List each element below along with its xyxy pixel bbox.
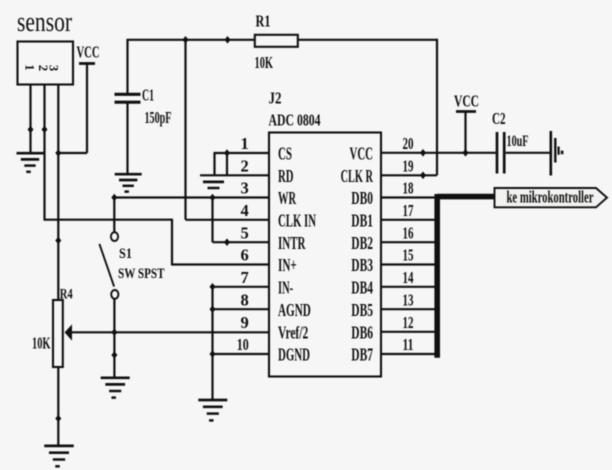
- svg-text:19: 19: [403, 157, 414, 176]
- capacitor C2: [492, 109, 529, 174]
- junction pin 8: [210, 305, 216, 313]
- svg-text:IN-: IN-: [278, 277, 293, 297]
- wire sensor pin2 down: [43, 85, 45, 220]
- wire IC pin 11 DB7 stub: [381, 353, 440, 355]
- svg-text:6: 6: [241, 246, 249, 265]
- svg-text:sensor: sensor: [17, 7, 73, 38]
- wire link pin1-pin2 left: [213, 153, 215, 175]
- junction pin 10: [210, 350, 216, 358]
- junction waypoint on pin 19 wire: [420, 172, 426, 180]
- svg-text:RD: RD: [278, 166, 294, 186]
- junction waypoint on top net: [225, 36, 231, 44]
- ground under R4: [44, 446, 74, 466]
- svg-text:IN+: IN+: [278, 255, 297, 275]
- svg-text:1: 1: [241, 134, 249, 153]
- wire to IC pin 5 INTR: [213, 241, 270, 243]
- junction on top net at CLK IN branch: [183, 36, 189, 44]
- junction VCC stem: [463, 149, 469, 157]
- svg-text:Vref/2: Vref/2: [278, 322, 308, 342]
- wire IC pin 17 DB1 stub: [381, 219, 440, 221]
- svg-text:9: 9: [241, 313, 249, 332]
- wire IC pin 18 DB0: [381, 196, 437, 198]
- power VCC (right): [454, 92, 479, 153]
- svg-text:17: 17: [403, 201, 414, 220]
- svg-text:4: 4: [241, 201, 249, 220]
- wire S1 bottom to ground: [113, 299, 115, 378]
- svg-text:WR: WR: [278, 188, 296, 208]
- svg-text:3: 3: [241, 179, 249, 198]
- wire to IC pin 10 DGND: [213, 353, 270, 355]
- junction on sensor pin1 wire: [28, 126, 34, 134]
- svg-text:CLK R: CLK R: [341, 166, 374, 186]
- junction on sensor pin2 wire: [42, 126, 48, 134]
- svg-text:14: 14: [403, 268, 414, 287]
- wire R1 right to corner: [298, 39, 437, 41]
- wire IC pin 1 CS stub: [214, 152, 270, 154]
- junction waypoint above ground: [111, 351, 117, 359]
- wire IC pin 14 DB4 stub: [381, 286, 440, 288]
- svg-text:10uF: 10uF: [507, 133, 529, 150]
- power VCC (left): [77, 43, 100, 64]
- svg-text:INTR: INTR: [278, 233, 306, 253]
- wiper arrow of R4: [65, 324, 72, 340]
- svg-text:VCC: VCC: [350, 144, 374, 164]
- wire IC pin 20 VCC: [381, 152, 496, 154]
- svg-text:10: 10: [237, 335, 249, 354]
- junction waypoint on R4 ground wire: [55, 415, 61, 423]
- junction WR / S1: [111, 194, 117, 202]
- wire IC pin 2 RD stub: [200, 174, 269, 176]
- svg-text:ke mikrokontroller: ke mikrokontroller: [507, 188, 594, 207]
- svg-text:16: 16: [403, 223, 414, 242]
- junction waypoint on pin3 wire: [55, 237, 61, 245]
- svg-text:DB2: DB2: [351, 233, 373, 253]
- wire top clock net: [128, 39, 255, 41]
- bus vertical DB0-DB7: [434, 194, 440, 358]
- wire IC pin 3 WR: [114, 196, 270, 198]
- svg-text:18: 18: [403, 179, 414, 198]
- resistor R1: [255, 12, 298, 73]
- svg-text:DB7: DB7: [351, 345, 373, 365]
- ground under S1: [101, 378, 130, 398]
- svg-text:C1: C1: [142, 86, 154, 105]
- wire C2 to ground: [506, 152, 550, 154]
- capacitor C1: [115, 39, 172, 174]
- svg-text:5: 5: [241, 223, 249, 242]
- wire IC pin 15 DB3 stub: [381, 263, 440, 265]
- wire IC pin 19 CLK R: [381, 174, 437, 176]
- wire down to pin6 row: [171, 219, 173, 265]
- svg-text:CS: CS: [278, 144, 292, 164]
- junction waypoint on pin 20 wire: [420, 149, 426, 157]
- svg-text:DB0: DB0: [351, 188, 373, 208]
- svg-text:10K: 10K: [255, 53, 274, 72]
- svg-text:3: 3: [47, 65, 61, 71]
- wire link pin1-pin2 right: [226, 152, 228, 175]
- svg-text:AGND: AGND: [278, 300, 311, 320]
- svg-text:20: 20: [403, 134, 414, 153]
- svg-text:ADC 0804: ADC 0804: [269, 111, 321, 130]
- svg-text:C2: C2: [492, 109, 506, 128]
- connector sensor box: [18, 42, 74, 85]
- wire corner down to pin 19: [436, 39, 438, 176]
- wire to IC pin 7 IN-: [213, 286, 270, 288]
- wire WR to INTR vertical: [211, 198, 213, 243]
- svg-text:7: 7: [241, 268, 249, 287]
- svg-text:SW SPST: SW SPST: [118, 266, 165, 282]
- junction on pin 1: [224, 149, 230, 157]
- node ke mikrokontroller flag: [495, 188, 608, 208]
- wire to IC pin 4 CLK IN: [186, 219, 270, 221]
- bus horizontal to mikrokontroller: [437, 194, 495, 200]
- junction pin 7: [210, 283, 216, 291]
- wire IC pin 12 DB6 stub: [381, 331, 440, 333]
- svg-text:DB3: DB3: [351, 255, 373, 275]
- svg-text:10K: 10K: [32, 334, 51, 353]
- svg-text:J2: J2: [269, 89, 282, 108]
- wire IC pin 13 DB5 stub: [381, 308, 440, 310]
- ground under C1: [115, 174, 142, 191]
- wire sensor pin2 to IN+ (horizontal): [44, 219, 173, 221]
- svg-text:DGND: DGND: [278, 345, 310, 365]
- ground under DGND chain: [198, 400, 227, 420]
- IC J2 ADC 0804 body: [269, 89, 382, 377]
- svg-text:DB4: DB4: [351, 277, 373, 297]
- wire IC pin 16 DB2 stub: [381, 241, 440, 243]
- svg-text:13: 13: [403, 290, 414, 309]
- wire to IC pin 6 IN+: [171, 263, 269, 265]
- svg-text:R4: R4: [60, 287, 73, 303]
- svg-text:DB5: DB5: [351, 300, 373, 320]
- wire CLK IN branch vertical: [184, 40, 186, 220]
- potentiometer R4: [32, 287, 73, 368]
- wire sensor pin3 down to R4: [57, 85, 59, 301]
- junction S1 / wiper: [111, 329, 117, 337]
- wire R4 bottom to ground: [57, 367, 59, 446]
- wire VCC feed horizontal: [58, 152, 87, 154]
- svg-text:8: 8: [241, 290, 249, 309]
- wire wiper to IC pin 9 Vref/2: [72, 331, 270, 333]
- ground (rotated) at C2: [551, 131, 564, 176]
- wire to IC pin 8 AGND: [213, 308, 270, 310]
- svg-text:2: 2: [241, 157, 249, 176]
- VCC stem (left): [86, 64, 88, 154]
- ground under sensor: [17, 153, 44, 172]
- ground at pin 2: [203, 182, 224, 188]
- svg-text:12: 12: [403, 313, 414, 332]
- junction sensor pin3 / VCC feed: [55, 149, 61, 157]
- wire sensor pin1 down to ground: [29, 85, 31, 154]
- svg-text:R1: R1: [256, 12, 271, 31]
- svg-text:CLK IN: CLK IN: [278, 210, 316, 230]
- svg-text:15: 15: [403, 246, 414, 265]
- svg-text:DB6: DB6: [351, 322, 373, 342]
- junction WR / INTR branch: [210, 194, 216, 202]
- svg-text:VCC: VCC: [454, 92, 479, 111]
- svg-text:11: 11: [403, 335, 414, 354]
- svg-text:1: 1: [23, 64, 37, 70]
- wire ground chain vertical: [211, 287, 213, 400]
- svg-text:S1: S1: [119, 246, 132, 262]
- switch S1 SW SPST: [99, 198, 164, 299]
- svg-text:DB1: DB1: [351, 210, 373, 230]
- svg-text:150pF: 150pF: [145, 108, 172, 127]
- svg-text:VCC: VCC: [77, 43, 100, 62]
- junction on pin 5 wire: [224, 238, 230, 246]
